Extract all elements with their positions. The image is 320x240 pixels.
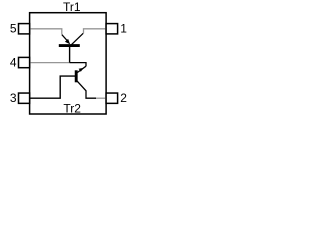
- svg-text:3: 3: [10, 91, 17, 105]
- pin 3 box: [19, 93, 30, 103]
- svg-text:4: 4: [10, 55, 17, 69]
- transistor Tr2 base lead to pin3: [30, 76, 77, 98]
- transistor Tr2 collector lead: [77, 81, 96, 98]
- transistor Tr1 emitter lead with arrow: [62, 35, 68, 41]
- transistor Tr2 (NPN) emitter lead with arrow: [77, 66, 86, 72]
- svg-text:2: 2: [120, 91, 127, 105]
- wire pin4 to node A (gray): [30, 62, 70, 64]
- svg-text:1: 1: [120, 22, 127, 36]
- wire pin5 to Tr1 emitter (gray): [30, 29, 62, 35]
- package outline: [30, 13, 107, 114]
- transistor Tr1 base lead down: [69, 47, 71, 63]
- pin 2 box: [106, 93, 118, 103]
- wire node A to Tr2 emitter (black jog): [70, 63, 86, 67]
- pin 1 box: [106, 24, 118, 34]
- transistor Tr1 collector lead: [71, 33, 83, 45]
- svg-text:Tr2: Tr2: [63, 101, 81, 115]
- pin 4 box: [19, 57, 30, 67]
- transistor Tr2 base bar: [75, 70, 78, 82]
- pin 5 box: [19, 24, 30, 34]
- wire Tr2 collector to pin2 (gray): [96, 97, 107, 99]
- transistor Tr1 (PNP) base bar: [59, 44, 80, 47]
- wire Tr1 collector to pin1 (gray): [84, 29, 107, 33]
- svg-text:5: 5: [10, 22, 17, 36]
- background: [0, 0, 131, 126]
